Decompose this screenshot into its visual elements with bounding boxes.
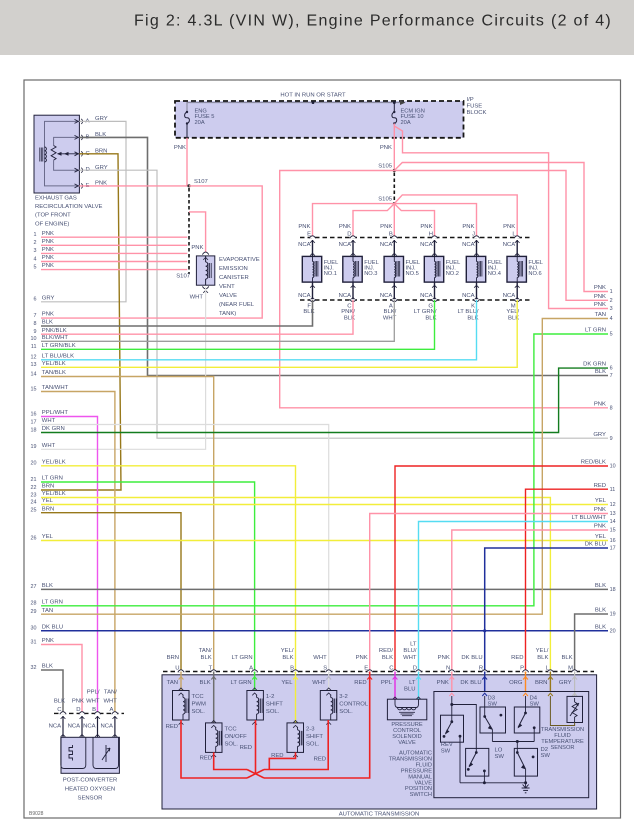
- automatic transmission box: [162, 675, 597, 809]
- svg-text:BLK: BLK: [537, 655, 548, 661]
- svg-text:2: 2: [34, 240, 37, 246]
- wire EGR-C BRN to left stub 22: [41, 154, 121, 490]
- svg-text:LT GRN/: LT GRN/: [414, 309, 437, 315]
- wire S105 branch to right stub 1: [394, 163, 608, 292]
- svg-text:NCA: NCA: [380, 293, 393, 299]
- wire trans GRY to temp sensor: [572, 672, 577, 697]
- svg-text:12: 12: [31, 355, 37, 361]
- svg-text:RED/: RED/: [379, 648, 393, 654]
- svg-text:7: 7: [610, 373, 613, 379]
- wire trans LT GRN to 1-2 shift sol: [252, 672, 257, 691]
- wire link bar to D2 SW: [516, 742, 518, 753]
- svg-text:VENT: VENT: [219, 284, 235, 290]
- svg-text:19: 19: [610, 612, 616, 618]
- svg-text:CANISTER: CANISTER: [219, 275, 249, 281]
- wire left stub 26 YEL to right stub 16: [41, 540, 608, 542]
- switch D4 SW box: [514, 695, 540, 733]
- svg-text:RED: RED: [594, 483, 606, 489]
- svg-text:WHT: WHT: [42, 418, 56, 424]
- label TRANSMISSION FLUID TEMPERATURE SENSOR: [541, 727, 584, 751]
- svg-text:BLK: BLK: [42, 583, 53, 589]
- svg-text:PPL: PPL: [381, 680, 393, 686]
- wire RED upper bus to 3-2 control sol: [264, 720, 328, 770]
- svg-text:PPL/: PPL/: [87, 689, 100, 695]
- svg-text:D4: D4: [530, 695, 538, 701]
- svg-text:3-2: 3-2: [339, 694, 348, 700]
- svg-text:GRY: GRY: [593, 432, 606, 438]
- svg-text:PWM: PWM: [192, 702, 206, 708]
- svg-text:NCA: NCA: [462, 242, 475, 248]
- svg-text:DK BLU: DK BLU: [42, 624, 63, 630]
- svg-text:YEL: YEL: [595, 498, 607, 504]
- svg-text:NCA: NCA: [503, 293, 516, 299]
- wire S105 fan to injector pin H: [394, 204, 434, 238]
- splice S107 lower label: [176, 273, 190, 279]
- svg-text:WHT: WHT: [313, 655, 327, 661]
- svg-text:PNK: PNK: [72, 699, 84, 705]
- wire trans ORG to position switch: [523, 672, 528, 692]
- svg-text:SHIFT: SHIFT: [306, 734, 323, 740]
- svg-text:RECIRCULATION VALVE: RECIRCULATION VALVE: [35, 204, 102, 210]
- svg-text:PNK: PNK: [594, 285, 606, 291]
- svg-text:5: 5: [34, 264, 37, 270]
- svg-text:SW: SW: [495, 754, 505, 760]
- svg-text:VALVE: VALVE: [219, 293, 237, 299]
- svg-text:PNK: PNK: [594, 401, 606, 407]
- solenoid 3-2 CONTROL SOL: [320, 691, 369, 725]
- svg-text:6: 6: [610, 366, 613, 372]
- wire S107 splice dashed bus: [188, 188, 190, 274]
- wire RED TCC ONOFF sol to upper bus: [200, 752, 247, 769]
- svg-text:YEL/BLK: YEL/BLK: [42, 459, 66, 465]
- wire left stub 5 PNK to S107 bus: [34, 263, 188, 270]
- wire EGR-E PNK to splice S107: [79, 185, 189, 187]
- svg-text:PNK: PNK: [380, 145, 392, 151]
- I/P fuse block box: [175, 101, 464, 138]
- svg-text:NCA: NCA: [49, 724, 62, 730]
- wire right stub 14 LT BLU/WHT to trans pin D: [419, 522, 609, 672]
- wire right stub 15 PNK to trans pin N: [452, 530, 608, 672]
- svg-text:D3: D3: [488, 695, 496, 701]
- svg-text:ORG: ORG: [509, 680, 523, 686]
- svg-text:BLK: BLK: [595, 583, 606, 589]
- svg-text:BLK: BLK: [382, 655, 393, 661]
- wire RED crossover up: [247, 770, 264, 779]
- svg-text:RED: RED: [166, 724, 178, 730]
- wire S105 to injector pin B: [393, 204, 395, 238]
- svg-text:TAN: TAN: [595, 312, 606, 318]
- wire left stub 27 BLK to right stub 18: [41, 588, 608, 590]
- svg-text:RED: RED: [200, 755, 212, 761]
- svg-text:POST-CONVERTER: POST-CONVERTER: [63, 778, 118, 784]
- svg-text:REV: REV: [441, 742, 453, 748]
- svg-text:BLU: BLU: [404, 686, 415, 692]
- wire trans PPL to pressure control solenoid: [393, 672, 398, 700]
- svg-text:18: 18: [610, 587, 616, 593]
- wire REV junction to LO SW: [452, 705, 477, 753]
- svg-text:BLK: BLK: [200, 680, 211, 686]
- svg-text:LT BLU/WHT: LT BLU/WHT: [572, 515, 607, 521]
- wire injector F BLK to left stub 8: [41, 300, 313, 326]
- svg-text:NCA: NCA: [420, 293, 433, 299]
- svg-text:RED: RED: [354, 680, 366, 686]
- svg-text:PNK: PNK: [191, 245, 203, 251]
- wire ECM fuse PNK to splice S105: [380, 124, 394, 171]
- svg-text:NO.2: NO.2: [446, 271, 459, 277]
- wire trans YEL to 2-3 shift sol: [293, 672, 298, 723]
- EGR pin arrows and labels: [75, 116, 108, 189]
- temp sensor thermistor: [570, 698, 579, 723]
- svg-text:(NEAR FUEL: (NEAR FUEL: [219, 302, 255, 308]
- svg-text:SOL.: SOL.: [192, 709, 206, 715]
- svg-text:BLK: BLK: [54, 699, 65, 705]
- O2 sensor box: [61, 737, 119, 773]
- EGR valve box: [34, 115, 79, 193]
- wire left stub 16 PPL/WHT to O2 pin B: [41, 417, 98, 714]
- label PRESSURE CONTROL SOLENOID VALVE: [391, 722, 422, 746]
- svg-text:13: 13: [31, 362, 37, 368]
- fuse ENG FUSE 5 20A: [185, 108, 215, 138]
- svg-text:TAN/BLK: TAN/BLK: [42, 370, 66, 376]
- svg-text:LT GRN: LT GRN: [585, 328, 606, 334]
- wire right stub 19 BLK to trans pin M: [575, 614, 608, 672]
- svg-text:D: D: [76, 707, 80, 713]
- svg-text:BRN: BRN: [42, 484, 54, 490]
- left stub labels 6-32: [31, 295, 76, 670]
- svg-text:A: A: [109, 707, 113, 713]
- solenoid 1-2 SHIFT SOL: [247, 691, 283, 725]
- svg-text:YEL/: YEL/: [281, 648, 294, 654]
- svg-text:YEL/: YEL/: [536, 648, 549, 654]
- svg-text:9: 9: [34, 329, 37, 335]
- svg-text:DK GRN: DK GRN: [42, 426, 65, 432]
- wire S107 branch to left stub 7: [41, 186, 262, 318]
- wire left stub 20 YEL/BLK to trans pin B: [41, 466, 296, 672]
- wire trans WHT to 3-2 control sol: [326, 672, 331, 691]
- splice S105 upper: [378, 163, 396, 172]
- svg-text:11: 11: [31, 344, 37, 350]
- svg-text:WHT: WHT: [86, 699, 100, 705]
- wire trans PNK to position switch: [449, 672, 454, 692]
- evap valve coil: [206, 256, 212, 285]
- svg-text:1-2: 1-2: [266, 694, 275, 700]
- svg-text:SOL.: SOL.: [306, 741, 320, 747]
- svg-text:TAN: TAN: [42, 608, 53, 614]
- svg-text:PNK: PNK: [420, 224, 432, 230]
- svg-text:NCA: NCA: [462, 293, 475, 299]
- switch LO SW box: [466, 748, 505, 777]
- wire EGR-A GRY to left stub 6: [41, 121, 126, 301]
- wire left stub 24 YEL to right stub 12: [41, 504, 608, 506]
- svg-text:GRY: GRY: [559, 680, 572, 686]
- svg-text:12: 12: [610, 502, 616, 508]
- switch D4 SW contacts: [518, 696, 536, 742]
- svg-text:NCA: NCA: [100, 724, 113, 730]
- svg-text:23: 23: [31, 492, 37, 498]
- svg-text:LT: LT: [409, 680, 416, 686]
- wire trans pin R DK BLU riser to right stub 17: [485, 548, 608, 672]
- wire left stub 23 YEL/BLK to trans pin L: [41, 498, 550, 672]
- svg-text:8: 8: [34, 321, 37, 327]
- svg-text:29: 29: [31, 609, 37, 615]
- svg-text:5: 5: [610, 332, 613, 338]
- wire ENG fuse PNK down to S107: [174, 138, 187, 186]
- EGR wiper arrow to pin C: [57, 152, 79, 156]
- svg-text:EVAPORATIVE: EVAPORATIVE: [219, 257, 260, 263]
- svg-text:30: 30: [31, 626, 37, 632]
- svg-text:NCA: NCA: [380, 242, 393, 248]
- svg-text:25: 25: [31, 508, 37, 514]
- svg-text:EMISSION: EMISSION: [219, 266, 248, 272]
- svg-text:RED: RED: [240, 745, 252, 751]
- svg-text:LT GRN/BLK: LT GRN/BLK: [42, 343, 76, 349]
- svg-text:BLK: BLK: [595, 369, 606, 375]
- svg-text:VALVE: VALVE: [398, 740, 416, 746]
- svg-text:NCA: NCA: [68, 724, 81, 730]
- ground symbol: [522, 785, 530, 793]
- svg-text:21: 21: [31, 477, 37, 483]
- svg-text:SW: SW: [541, 753, 551, 759]
- svg-text:RED/BLK: RED/BLK: [581, 460, 606, 466]
- svg-text:SW: SW: [530, 702, 540, 708]
- svg-text:19: 19: [31, 444, 37, 450]
- wire RED crossover down to pin E bus: [247, 770, 264, 779]
- svg-text:17: 17: [31, 419, 37, 425]
- svg-text:I/P: I/P: [467, 97, 474, 103]
- svg-text:PNK: PNK: [356, 655, 368, 661]
- svg-text:SOL.: SOL.: [225, 741, 239, 747]
- wire S105 to injector pin J: [394, 204, 476, 238]
- switch LO SW contacts: [467, 751, 486, 783]
- svg-text:6: 6: [34, 297, 37, 303]
- label AUTOMATIC TRANSMISSION FLUID PRESSURE MANUAL VALVE POSITION SWITCH: [389, 751, 432, 799]
- position switch inner box: [434, 692, 589, 798]
- svg-text:11: 11: [610, 487, 616, 493]
- injector top connector dashed line: [300, 237, 531, 239]
- svg-text:26: 26: [31, 535, 37, 541]
- svg-text:SOL.: SOL.: [339, 709, 353, 715]
- switch D2 SW contacts: [516, 751, 535, 788]
- svg-text:3: 3: [610, 306, 613, 312]
- svg-text:20A: 20A: [401, 120, 411, 126]
- wire injector M YEL/BLK to left stub 13: [41, 300, 517, 367]
- svg-text:BRN: BRN: [167, 655, 179, 661]
- evap valve pin bracket top: [202, 252, 208, 260]
- node ECM fuse tap dot: [393, 101, 396, 104]
- svg-text:10: 10: [31, 336, 37, 342]
- svg-text:DK BLU: DK BLU: [460, 680, 481, 686]
- title text: [134, 13, 612, 30]
- wire left stub 15 TAN/WHT to O2 pin A: [41, 392, 115, 714]
- splice S105 lower: [378, 196, 396, 205]
- svg-text:PNK: PNK: [339, 224, 351, 230]
- transmission connector dashed line: [163, 671, 594, 673]
- svg-text:SW: SW: [488, 702, 498, 708]
- svg-text:BLK: BLK: [42, 664, 53, 670]
- wire RED TCC PWM sol to bus: [166, 720, 247, 778]
- svg-text:NCA: NCA: [339, 293, 352, 299]
- EGR internal loop A-E: [45, 121, 80, 185]
- svg-text:8: 8: [610, 405, 613, 411]
- svg-text:BLK: BLK: [561, 655, 572, 661]
- svg-text:YEL: YEL: [281, 680, 293, 686]
- svg-text:YEL: YEL: [595, 534, 607, 540]
- svg-text:NO.6: NO.6: [528, 271, 541, 277]
- figure number B9028: [29, 811, 44, 817]
- svg-text:S107: S107: [194, 179, 208, 185]
- svg-text:LT GRN: LT GRN: [42, 599, 63, 605]
- svg-text:SW: SW: [441, 748, 451, 754]
- switch D3 SW box: [480, 695, 506, 733]
- wire RED 2-3 shift sol jog: [269, 752, 295, 769]
- svg-text:15: 15: [610, 528, 616, 534]
- svg-text:BLU/: BLU/: [403, 648, 416, 654]
- svg-text:2: 2: [610, 298, 613, 304]
- fuse ECM IGN FUSE 10 20A: [392, 103, 425, 127]
- svg-text:DK BLU: DK BLU: [461, 655, 482, 661]
- svg-text:2-3: 2-3: [306, 726, 315, 732]
- wire fuse block bus: [187, 100, 406, 113]
- svg-text:PNK/BLK: PNK/BLK: [42, 328, 67, 334]
- svg-text:HOT IN RUN OR START: HOT IN RUN OR START: [280, 93, 346, 99]
- switch REV SW contacts: [443, 696, 462, 783]
- svg-text:24: 24: [31, 499, 37, 505]
- label POST-CONVERTER HEATED OXYGEN SENSOR: [63, 778, 118, 802]
- O2 sensor element arrow: [102, 745, 110, 762]
- svg-text:TAN/: TAN/: [104, 689, 117, 695]
- svg-text:PNK: PNK: [594, 507, 606, 513]
- wire S105 splice dashed link: [393, 173, 395, 202]
- wire left stub 17 WHT to trans pin S: [41, 425, 329, 672]
- svg-text:TAN/: TAN/: [199, 648, 212, 654]
- solenoid TCC ON/OFF SOL: [206, 723, 248, 757]
- svg-text:RED: RED: [314, 757, 326, 763]
- svg-text:BLK: BLK: [282, 655, 293, 661]
- svg-text:LT GRN: LT GRN: [42, 476, 63, 482]
- svg-text:BLK/WHT: BLK/WHT: [42, 335, 69, 341]
- wire RED 1-2 shift sol to crossover: [240, 720, 256, 774]
- svg-text:PNK: PNK: [594, 302, 606, 308]
- svg-text:NCA: NCA: [420, 242, 433, 248]
- svg-text:NO.3: NO.3: [364, 271, 377, 277]
- wire trans LT BLU to pressure control solenoid: [416, 672, 421, 700]
- fuel injector NO.6 (pins L/M): [503, 224, 543, 322]
- wire trans RED pin E to solenoid bus: [264, 672, 372, 779]
- wire left stub 25 BRN to trans pin U: [41, 513, 181, 672]
- O2 sensor right cell: [93, 737, 119, 768]
- svg-text:7: 7: [34, 313, 37, 319]
- svg-text:YEL/BLK: YEL/BLK: [42, 361, 66, 367]
- O2 sensor connector dashed line: [54, 712, 124, 714]
- svg-text:HEATED OXYGEN: HEATED OXYGEN: [65, 786, 115, 792]
- svg-text:PNK: PNK: [462, 224, 474, 230]
- wire S105 to injector pin E: [313, 204, 395, 238]
- wire S105 level line left to right stub 8: [280, 171, 608, 408]
- svg-text:LO: LO: [495, 748, 503, 754]
- svg-text:WHT: WHT: [403, 655, 417, 661]
- wire BRN to temp sensor bottom: [550, 696, 574, 726]
- svg-text:PNK: PNK: [42, 247, 54, 253]
- position switch entry arrows: [449, 693, 577, 696]
- svg-text:RED: RED: [271, 753, 283, 759]
- switch D3 SW contacts: [483, 696, 502, 742]
- svg-text:RED: RED: [511, 655, 523, 661]
- transmission fluid temperature sensor box: [567, 696, 583, 722]
- svg-text:NO.1: NO.1: [324, 271, 337, 277]
- svg-text:LT GRN: LT GRN: [232, 655, 253, 661]
- svg-text:15: 15: [31, 386, 37, 392]
- svg-text:S107: S107: [176, 273, 190, 279]
- svg-text:AUTOMATIC TRANSMISSION: AUTOMATIC TRANSMISSION: [339, 812, 420, 818]
- svg-text:PNK: PNK: [503, 224, 515, 230]
- svg-text:18: 18: [31, 427, 37, 433]
- wire S105 fan to injector pin D: [353, 204, 394, 238]
- pressure control solenoid coil: [395, 699, 419, 716]
- svg-text:TAN/WHT: TAN/WHT: [42, 385, 69, 391]
- svg-text:20: 20: [31, 461, 37, 467]
- svg-text:NCA: NCA: [298, 293, 311, 299]
- fuel injector NO.2 (pins H/G): [414, 224, 460, 322]
- injector bottom connector dashed line: [300, 299, 531, 301]
- fuel injector NO.5 (pins B/A): [380, 224, 420, 322]
- wire left stub 4 PNK to S107 bus: [34, 255, 188, 262]
- wire injector A BLK/WHT to left stub 10: [41, 300, 394, 341]
- svg-text:LT BLU/BLK: LT BLU/BLK: [42, 353, 74, 359]
- O2 sensor left cell: [61, 737, 86, 768]
- wire left stub 3 PNK to S107 bus: [34, 247, 188, 254]
- node HOT feed dot: [312, 101, 315, 104]
- svg-text:NCA: NCA: [83, 724, 96, 730]
- wire left stub 30 DK BLU to right stub 20: [41, 630, 608, 632]
- svg-text:1: 1: [34, 232, 37, 238]
- wire trans DK BLU to position switch: [482, 672, 487, 692]
- svg-text:20A: 20A: [195, 120, 205, 126]
- svg-text:17: 17: [610, 546, 616, 552]
- svg-text:WHT: WHT: [103, 699, 117, 705]
- svg-text:SWITCH: SWITCH: [410, 792, 432, 798]
- wire injector G LT GRN/BLK to left stub 11: [41, 300, 435, 349]
- svg-text:4: 4: [610, 316, 613, 322]
- svg-text:BRN: BRN: [535, 680, 547, 686]
- svg-text:PNK: PNK: [438, 655, 450, 661]
- svg-text:B9028: B9028: [29, 811, 44, 817]
- svg-text:4: 4: [34, 256, 37, 262]
- svg-text:PNK: PNK: [594, 524, 606, 530]
- svg-text:PNK: PNK: [380, 224, 392, 230]
- wire right stub 11 RED to trans pin P: [526, 489, 609, 671]
- wire switch common bus: [460, 781, 527, 784]
- svg-text:EXHAUST GAS: EXHAUST GAS: [35, 196, 77, 202]
- svg-text:BLK: BLK: [42, 320, 53, 326]
- svg-text:PNK: PNK: [42, 255, 54, 261]
- svg-text:TCC: TCC: [192, 694, 205, 700]
- svg-text:B: B: [92, 707, 96, 713]
- svg-text:LT BLU/: LT BLU/: [457, 309, 478, 315]
- O2 sensor pins C D B A: [49, 689, 119, 737]
- svg-text:Fig 2: 4.3L (VIN W), Engine Pe: Fig 2: 4.3L (VIN W), Engine Performance …: [134, 13, 612, 30]
- wire S107 branch PNK to evap vent valve: [189, 212, 206, 253]
- svg-text:PNK: PNK: [437, 680, 449, 686]
- right stub labels 1-20: [572, 285, 616, 634]
- wire trans BRN to position switch: [548, 672, 553, 692]
- wire trans BLK to TCC ONOFF sol: [211, 672, 216, 723]
- fuel injector NO.1 (pins E/F): [298, 224, 338, 315]
- svg-text:PNK: PNK: [42, 263, 54, 269]
- title bar: [0, 0, 634, 55]
- wire right stub 10 RED/BLK to trans pin C: [395, 466, 608, 672]
- wire left stub 28 LT GRN to right stub 5: [41, 334, 608, 606]
- wire injector K LT BLU/BLK to left stub 12: [41, 300, 477, 360]
